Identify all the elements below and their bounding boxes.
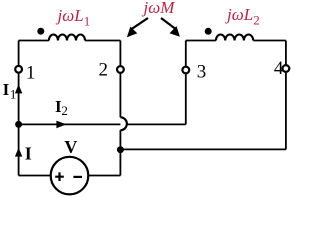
wire: from source right side to vertical bbox=[88, 175, 120, 177]
junction dot at left wire / I2 bbox=[15, 121, 22, 128]
terminal 3 bbox=[182, 67, 189, 74]
wire: bottom left from left wire to source bbox=[19, 175, 51, 177]
svg-text:2: 2 bbox=[99, 60, 109, 81]
junction dot (terminal 2 branch / right loop bottom / source) bbox=[117, 146, 124, 153]
svg-text:3: 3 bbox=[197, 61, 207, 82]
svg-text:2: 2 bbox=[61, 103, 68, 118]
current arrow I1 (arrowhead on left wire) bbox=[15, 84, 22, 93]
svg-text:1: 1 bbox=[26, 62, 36, 83]
wire: I2 horizontal right part to right loop bbox=[127, 123, 186, 125]
wire: right loop top to L2 bbox=[186, 40, 216, 42]
svg-text:4: 4 bbox=[274, 58, 284, 79]
svg-text:V: V bbox=[64, 137, 77, 157]
terminal 1 bbox=[15, 66, 22, 73]
wire: right loop right vertical (through terminal 4) bbox=[285, 41, 287, 150]
svg-text:1: 1 bbox=[10, 86, 17, 101]
terminal 4 bbox=[283, 65, 290, 72]
arrow from jωM to L2 bbox=[161, 18, 176, 29]
wire: vertical below hop to junction and bottom bbox=[119, 130, 121, 175]
coupling dot for L2 bbox=[205, 28, 212, 35]
wire hop: vertical wire jumps over I2 wire bbox=[120, 117, 126, 130]
wire: I2 horizontal left part bbox=[19, 123, 121, 125]
svg-text:jωM: jωM bbox=[142, 0, 176, 17]
wire: left vertical (node with source +) bbox=[18, 41, 20, 176]
coupling dot for L1 bbox=[37, 28, 44, 35]
wire: right loop left vertical (through terminal 3) bbox=[185, 41, 187, 125]
wire: top-left horizontal to L1 bbox=[19, 40, 49, 42]
minus sign inside source bbox=[73, 176, 82, 178]
wire: top horizontal from L1 to corner bbox=[85, 40, 120, 42]
inductor L2 (jωL2) bbox=[216, 34, 253, 40]
svg-text:I: I bbox=[25, 143, 32, 163]
voltage source V (circle) bbox=[51, 157, 89, 195]
wire: right loop top from L2 to corner bbox=[253, 40, 286, 42]
wire: right loop bottom to junction bbox=[120, 148, 286, 150]
current arrow I (arrowhead on left wire above source) bbox=[15, 148, 22, 157]
current arrow I2 (arrowhead on horizontal wire) bbox=[56, 121, 66, 129]
plus sign inside source bbox=[55, 172, 64, 181]
wire: right vertical of left loop (through terminal 2, above hop) bbox=[119, 41, 121, 118]
inductor L1 (jωL1) bbox=[49, 34, 85, 40]
arrow from jωM to L1 bbox=[132, 18, 149, 29]
svg-text:I: I bbox=[3, 80, 10, 99]
terminal 2 bbox=[117, 66, 124, 73]
